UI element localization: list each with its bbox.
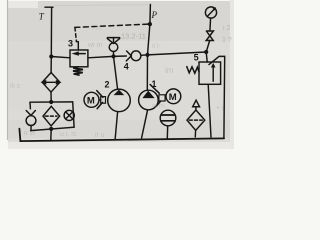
junction dot pilot-P	[148, 22, 152, 26]
pump 2	[108, 89, 131, 112]
svg-text:+ i: + i	[216, 105, 224, 112]
level gauge LG	[160, 110, 176, 126]
wire level gauge to tank	[166, 126, 168, 139]
wire rail P to gauge column	[148, 52, 207, 55]
svg-text:im: im	[165, 66, 174, 75]
wire pump1 suction	[142, 110, 148, 138]
paper background	[0, 0, 234, 149]
junction dot rail-pump2	[111, 54, 115, 58]
svg-text:1 ?: 1 ?	[222, 37, 232, 44]
wire T line to cooler	[50, 57, 52, 73]
wire rail junction to check4	[114, 55, 127, 57]
pump 1	[139, 90, 159, 110]
svg-text:13.2-11: 13.2-11	[121, 32, 146, 41]
bleed-through artifacts	[10, 25, 232, 139]
filter loop right side	[31, 102, 75, 131]
breather B1 element dashed	[189, 119, 202, 121]
svg-text:M: M	[169, 92, 177, 103]
bypass check valve stub top	[29, 102, 31, 109]
vent check valve seat	[107, 39, 113, 44]
filter F1 body	[43, 106, 60, 126]
check valve U4 ball	[131, 51, 141, 61]
coupling pump1	[159, 95, 165, 101]
valve U3 body	[70, 50, 88, 67]
relief valve U5 drain line	[209, 56, 225, 138]
check valve U4 seat	[126, 51, 131, 61]
wire valve3 top stub	[76, 42, 78, 51]
svg-text:P: P	[151, 10, 158, 20]
svg-text:ili s: ili s	[10, 83, 21, 90]
wire T line top tick	[45, 6, 53, 8]
vent check valve ball	[109, 43, 118, 52]
vent check valve T-bar	[107, 37, 119, 39]
wire filter loop to tank	[50, 129, 52, 141]
wire vent valve to rail	[113, 52, 115, 57]
breather B1 triangle	[193, 100, 200, 107]
svg-text:5: 5	[194, 53, 199, 63]
wire rail valve3 to junction	[88, 56, 114, 57]
wire pump2 outlet	[114, 56, 118, 89]
coupling pump2	[101, 97, 106, 104]
wire junction to relief valve 5	[206, 52, 207, 62]
svg-text:ir w: ir w	[24, 130, 36, 137]
wire breather to tank	[194, 130, 196, 137]
svg-text:m: m	[96, 25, 102, 32]
wire rail check4 to P	[141, 54, 148, 56]
svg-text:w m: w m	[151, 103, 165, 110]
vent check valve stub	[113, 38, 115, 42]
wire P line top	[148, 5, 151, 55]
filter F1 element dashed	[45, 115, 57, 117]
breather B1 stub	[195, 107, 197, 110]
svg-text:if u: if u	[95, 132, 104, 139]
svg-text:wi m: wi m	[87, 42, 103, 49]
valve U3 internal arrow	[75, 53, 86, 55]
filter loop top rail	[30, 101, 73, 103]
svg-text:3: 3	[68, 39, 73, 49]
bypass check valve seat	[26, 111, 31, 116]
wire relief valve outlet to tank	[208, 84, 211, 137]
wire pump2 suction	[115, 112, 118, 140]
bypass check valve stub bottom	[30, 126, 32, 131]
cooler HX1	[42, 73, 60, 93]
wire gauge to shutoff	[209, 18, 212, 31]
motor M2	[84, 92, 99, 107]
relief valve U5 body	[199, 62, 221, 84]
valve U3 spring	[73, 67, 83, 75]
svg-text:i 2: i 2	[223, 25, 231, 32]
pressure gauge G1	[205, 7, 216, 18]
wire cooler to filter loop	[50, 92, 52, 102]
junction dot loop bottom	[49, 127, 53, 131]
bypass check valve ball	[26, 116, 36, 126]
wire shutoff to junction	[206, 41, 210, 53]
svg-text:2: 2	[105, 80, 110, 90]
junction dot gauge column	[204, 50, 208, 54]
junction dot loop top	[49, 100, 53, 104]
valve U3 pilot dashed line	[75, 24, 148, 27]
clogging indicator	[64, 110, 74, 120]
svg-text:4: 4	[124, 62, 129, 72]
svg-text:u i. is: u i. is	[60, 131, 77, 138]
junction dot T-rail	[49, 54, 53, 58]
relief valve U5 internal arrow	[212, 66, 214, 81]
svg-text:1: 1	[152, 79, 157, 89]
svg-text:il l-: il l-	[152, 43, 162, 50]
wire P to pump1	[146, 55, 148, 90]
breather B1 filter body	[187, 110, 205, 130]
wire rail T to valve3	[51, 57, 70, 58]
svg-text:M: M	[87, 95, 95, 106]
tank outline	[19, 129, 224, 142]
shutoff valve V1	[206, 31, 213, 41]
wire T line	[50, 7, 52, 56]
relief valve U5 spring	[187, 67, 199, 74]
motor M1	[166, 89, 181, 104]
junction dot rail-P	[145, 53, 149, 57]
